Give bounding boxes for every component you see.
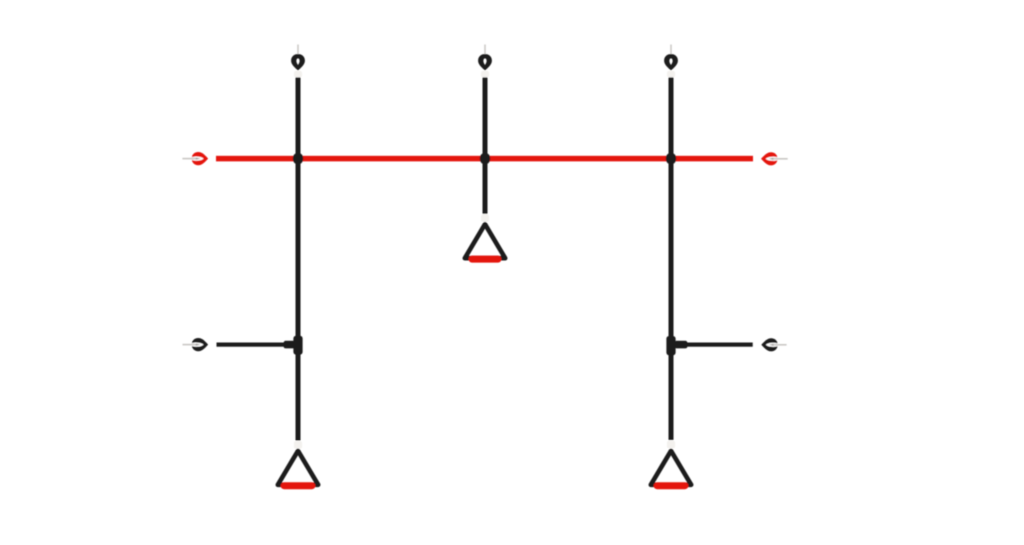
left rope lower connector band (294, 441, 302, 449)
left arm sleeve (284, 341, 297, 349)
right arm sleeve (675, 341, 688, 349)
middle handle triangle frame (465, 224, 505, 258)
junction knot of red rope and left rope (293, 153, 303, 165)
right handle triangle frame (651, 451, 691, 485)
middle handle red grip bar (472, 256, 498, 263)
junction knot of red rope and right rope (666, 153, 676, 165)
middle rope lower connector band (481, 214, 489, 222)
left vertical rope (296, 77, 301, 440)
left rope top pigtail cord (297, 45, 299, 56)
right arm strap (671, 343, 753, 347)
left rope top hook (carabiner loop) (291, 54, 305, 71)
middle rope top hook (carabiner loop) (478, 54, 492, 71)
middle vertical rope (483, 77, 488, 213)
left arm end loop with pigtail cord (192, 338, 208, 351)
left handle red grip bar (284, 482, 312, 489)
left rope top connector band (294, 71, 302, 78)
right arm junction block on rope (666, 336, 675, 355)
red horizontal rope (216, 156, 753, 162)
left arm strap (217, 343, 294, 347)
junction knot of red rope and middle rope (480, 153, 490, 165)
middle rope top connector band (481, 71, 489, 78)
right rope top connector band (667, 71, 675, 78)
red rope left end loop with pigtail cord (192, 152, 208, 165)
right arm end loop with pigtail cord (761, 338, 777, 351)
right rope top hook (carabiner loop) (664, 54, 678, 71)
right handle red grip bar (657, 482, 685, 489)
red rope right end loop with pigtail cord (761, 152, 777, 165)
left arm junction block on rope (293, 336, 302, 355)
middle rope top pigtail cord (484, 45, 486, 56)
right rope lower connector band (667, 441, 675, 449)
left handle triangle frame (278, 451, 318, 485)
right rope top pigtail cord (670, 45, 672, 56)
right vertical rope (669, 77, 674, 440)
